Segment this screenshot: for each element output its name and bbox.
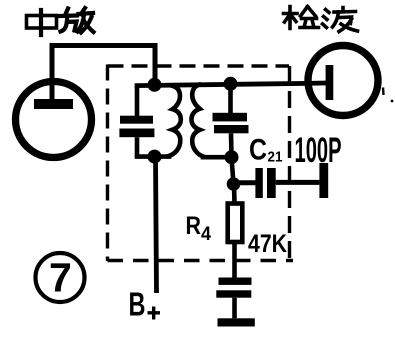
tube V2 electrode bar bbox=[326, 65, 334, 100]
capacitor C (bypass) plates bbox=[219, 278, 252, 285]
label C21 bbox=[249, 134, 283, 167]
svg-text:C: C bbox=[249, 134, 267, 167]
tank 2 bottom side bbox=[203, 155, 232, 160]
tube V1 (IF amp) circle bbox=[16, 82, 92, 158]
node bottom of tank 1 bbox=[148, 150, 162, 164]
svg-text:4: 4 bbox=[201, 224, 211, 245]
label 检波 (detector) bbox=[284, 7, 358, 32]
wire from IF amp plate up and over to transformer top bbox=[52, 46, 155, 101]
capacitor of tank 1 (left branch) bbox=[135, 86, 140, 116]
tube V1 plate bar bbox=[34, 99, 73, 109]
capacitor of tank 2 (right branch) bbox=[228, 84, 233, 113]
tank 1 bottom side bbox=[137, 154, 169, 159]
node bottom of tank 2 bbox=[225, 150, 239, 164]
stray speck bbox=[391, 100, 394, 103]
svg-text:47K: 47K bbox=[248, 230, 287, 258]
wire into detector tube bbox=[306, 81, 326, 86]
wire cap to ground bbox=[232, 298, 237, 319]
dashed shield box top edge bbox=[108, 64, 290, 67]
ground bar bbox=[218, 318, 255, 326]
coil L2 of tank 2 (bumps left) bbox=[192, 84, 206, 157]
output terminal bar bbox=[319, 163, 328, 198]
resistor R4 bbox=[232, 184, 237, 204]
coil L1 of tank 1 (bumps right) bbox=[167, 86, 181, 157]
svg-text:7: 7 bbox=[49, 255, 72, 301]
capacitor C21 plates bbox=[255, 168, 262, 198]
svg-text:100P: 100P bbox=[295, 131, 342, 170]
stray mark right of detector bbox=[382, 88, 385, 96]
wire tank1 bottom to B+ bbox=[156, 157, 157, 293]
svg-text:21: 21 bbox=[268, 149, 283, 166]
wire C21 to output terminal bbox=[276, 180, 320, 185]
svg-text:B: B bbox=[129, 286, 146, 323]
plus of B+ bbox=[148, 307, 161, 320]
label 中放 (IF amp) bbox=[27, 8, 94, 35]
dashed shield box left edge bbox=[106, 65, 109, 262]
wire junction to C21 bbox=[234, 180, 256, 185]
dashed shield box bottom edge bbox=[108, 259, 294, 262]
node top of tank 2 bbox=[224, 77, 238, 91]
svg-text:R: R bbox=[186, 212, 202, 240]
node top of tank 1 bbox=[148, 78, 162, 92]
wire top bus (tank tops to detector) bbox=[137, 83, 306, 85]
node junction (detector load) bbox=[227, 177, 241, 191]
figure number 7 circle bbox=[36, 253, 85, 302]
tube V2 (detector) circle bbox=[308, 46, 378, 116]
dashed shield box right edge bbox=[288, 66, 291, 258]
wire tank2 bottom to junction bbox=[232, 157, 234, 184]
label R4 bbox=[186, 212, 212, 245]
